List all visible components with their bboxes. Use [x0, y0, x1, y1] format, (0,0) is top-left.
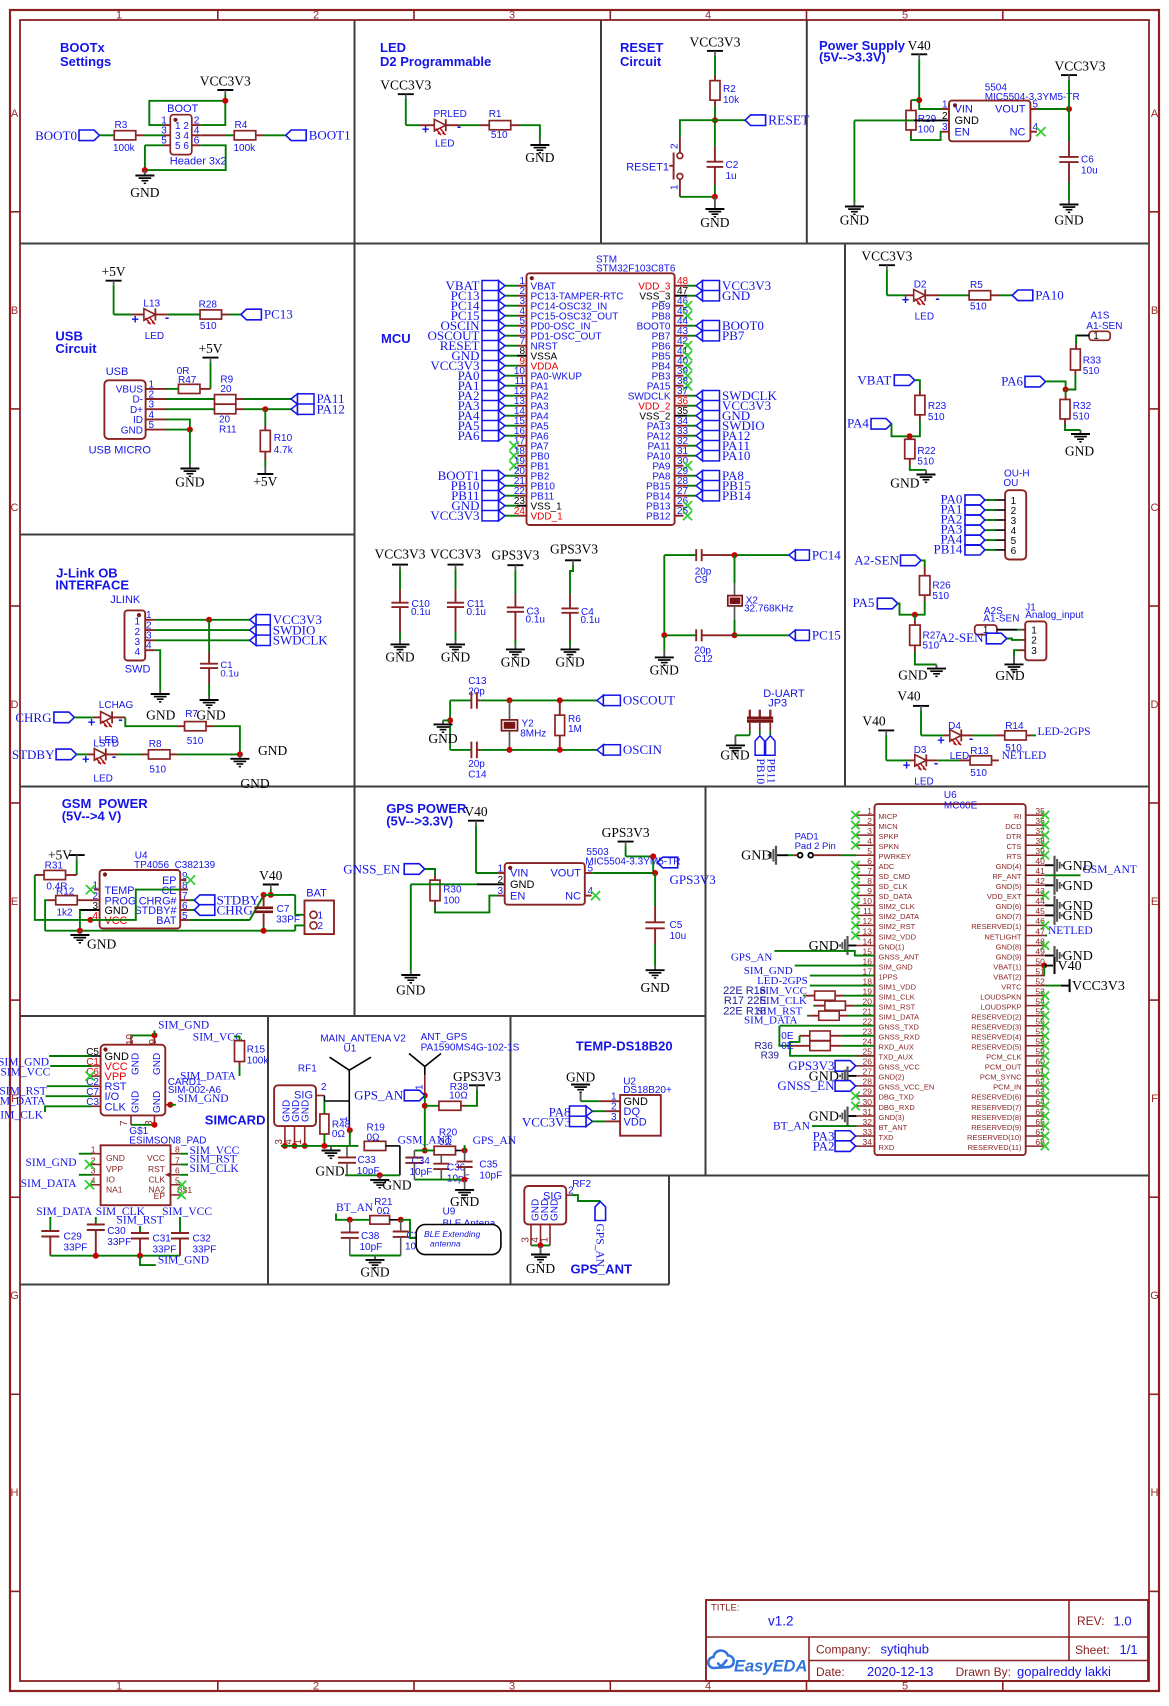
junction dot Y2 top — [507, 697, 513, 703]
svg-text:GND: GND — [809, 1110, 839, 1125]
svg-text:1: 1 — [415, 1084, 426, 1090]
junction dot Y2 bottom — [507, 747, 513, 753]
svg-text:RESERVED(5): RESERVED(5) — [971, 1043, 1022, 1052]
net flag SWDIO (JLINK) — [250, 625, 257, 635]
svg-text:GND: GND — [890, 476, 919, 491]
wire L13 to R28 — [155, 314, 167, 316]
junction dot Y2 GND tap — [447, 717, 453, 723]
power VCC3V3 (D2) — [879, 264, 895, 266]
svg-text:GND: GND — [131, 1053, 142, 1075]
svg-text:VDD_EXT: VDD_EXT — [987, 892, 1022, 901]
svg-text:V40: V40 — [259, 868, 282, 883]
junction dot USB GND — [187, 427, 193, 433]
resistor R39 0E (U6 pin 23) — [800, 1035, 810, 1037]
svg-text:U9: U9 — [443, 1207, 456, 1218]
svg-text:gopalreddy lakki: gopalreddy lakki — [1017, 1664, 1111, 1679]
wire SIM_VCC (CARD1 VCC) — [50, 1065, 91, 1067]
svg-text:8MHz: 8MHz — [520, 728, 546, 739]
svg-text:MICP: MICP — [879, 812, 898, 821]
svg-text:R2: R2 — [723, 84, 736, 95]
wire VOUT row — [585, 872, 593, 874]
svg-text:C: C — [1151, 502, 1159, 514]
resistor R7 — [185, 722, 207, 731]
junction dot R48 — [321, 1143, 327, 1149]
resistor R22 — [909, 436, 911, 439]
svg-text:R3: R3 — [115, 120, 128, 131]
svg-text:1: 1 — [1093, 331, 1099, 342]
ground GND (JLINK pin4) — [159, 690, 161, 694]
svg-text:GND(6): GND(6) — [996, 902, 1022, 911]
svg-text:4: 4 — [705, 10, 711, 22]
svg-text:USB: USB — [106, 366, 129, 378]
power V40 (D4) — [913, 705, 929, 707]
svg-text:4.7k: 4.7k — [274, 445, 294, 456]
svg-text:SIM_CLK: SIM_CLK — [190, 1163, 240, 1175]
svg-text:(5V-->3.3V): (5V-->3.3V) — [819, 50, 886, 65]
svg-text:SIM_DATA: SIM_DATA — [180, 1071, 237, 1083]
svg-text:V40: V40 — [897, 689, 920, 704]
svg-text:RI: RI — [1014, 812, 1022, 821]
svg-text:510: 510 — [1083, 366, 1100, 377]
wire VBAT to R23 — [915, 380, 920, 390]
svg-text:IO: IO — [106, 1174, 115, 1184]
wire R2 to junction — [714, 100, 716, 106]
svg-text:GNSS_VCC_EN: GNSS_VCC_EN — [879, 1083, 935, 1092]
svg-text:SIM2_CLK: SIM2_CLK — [879, 902, 915, 911]
net flag OSCIN (MCU pin 5) — [499, 321, 506, 331]
svg-text:CTS: CTS — [1007, 842, 1022, 851]
net flag PA4 (OU-H pin 5) — [965, 535, 985, 545]
svg-text:PA6: PA6 — [458, 428, 480, 443]
wire PA5 to junction — [898, 604, 915, 615]
svg-text:Header 3x2: Header 3x2 — [170, 156, 227, 168]
svg-text:PA12: PA12 — [317, 401, 345, 416]
junction dot C2 GND — [712, 194, 718, 200]
svg-text:A: A — [1151, 108, 1159, 120]
capacitor C12 — [664, 634, 696, 636]
ground GND (PAD1) — [775, 846, 777, 865]
net flag PC14 — [789, 550, 796, 560]
net flag RESET (MCU pin 7) — [499, 341, 506, 351]
svg-text:GPS_AN: GPS_AN — [473, 1135, 517, 1147]
svg-text:0.1u: 0.1u — [526, 615, 545, 626]
svg-text:1: 1 — [318, 911, 324, 922]
net flag PA0 (OU-H pin 1) — [965, 495, 985, 505]
svg-text:BAT: BAT — [156, 915, 177, 927]
svg-text:sytiqhub: sytiqhub — [881, 1642, 929, 1657]
wire row2 left — [414, 1150, 424, 1152]
wire RF2 GND bus — [531, 1244, 550, 1246]
net flag SWDCLK (JLINK) — [250, 635, 257, 645]
svg-text:PA4: PA4 — [847, 416, 869, 431]
net flag VCC3V3 (JLINK) — [250, 615, 257, 625]
svg-text:RXD_AUX: RXD_AUX — [879, 1043, 914, 1052]
svg-text:NC: NC — [565, 890, 581, 902]
svg-text:R13: R13 — [970, 746, 989, 757]
net flag SWDIO (MCU pin 34) — [696, 421, 703, 431]
svg-text:PRLED: PRLED — [434, 109, 467, 120]
svg-text:Analog_input: Analog_input — [1025, 610, 1084, 621]
svg-text:SIM_CLK: SIM_CLK — [0, 1110, 44, 1122]
net flag PA11 — [291, 394, 298, 404]
svg-text:RF1: RF1 — [298, 1064, 317, 1075]
svg-text:32.768KHz: 32.768KHz — [744, 604, 793, 615]
net flag STDBY (U4) — [180, 899, 190, 901]
svg-text:GND: GND — [130, 185, 159, 200]
wire GPS3V3 to VOUT node — [625, 846, 627, 856]
ground GND (JP3) — [734, 735, 736, 745]
svg-text:SIG: SIG — [294, 1090, 313, 1102]
net flag GNSS_EN (U6 pin 28) — [835, 1081, 856, 1092]
svg-text:V40: V40 — [908, 38, 931, 53]
svg-text:BOOTx: BOOTx — [60, 40, 106, 55]
wire PA6 to junction — [1046, 381, 1066, 389]
svg-text:1/1: 1/1 — [1120, 1642, 1138, 1657]
svg-text:GND(3): GND(3) — [879, 1113, 905, 1122]
svg-text:3: 3 — [509, 1681, 515, 1693]
resistor R27 — [914, 615, 916, 621]
svg-text:MAIN_ANTENA V2: MAIN_ANTENA V2 — [320, 1034, 406, 1045]
wire GNSS_EN to R30 — [425, 869, 435, 876]
svg-text:SD_DATA: SD_DATA — [879, 892, 912, 901]
svg-text:GND: GND — [441, 649, 470, 664]
junction dot PC14/X2 — [732, 552, 738, 558]
wire R1 to GND — [511, 124, 520, 126]
wire SIM_DATA (G$1) — [79, 1174, 92, 1176]
svg-text:GSM_ANT: GSM_ANT — [1083, 864, 1137, 876]
wire D3 to R13 — [926, 759, 938, 761]
svg-text:PC13: PC13 — [264, 307, 293, 322]
wire BAT pin5 to V40 node — [180, 919, 190, 921]
svg-text:10u: 10u — [670, 931, 687, 942]
svg-text:GND: GND — [240, 776, 269, 791]
junction dot CHRG/STDBY GND — [237, 751, 243, 757]
svg-text:PA2: PA2 — [813, 1138, 835, 1153]
svg-text:+5V: +5V — [198, 341, 222, 356]
wire A2-SEN to J1 pin2 — [1007, 639, 1022, 640]
net flag PA8 (MCU pin 29) — [696, 471, 703, 481]
svg-text:SIM2_RST: SIM2_RST — [879, 922, 916, 931]
net flag VBAT (MCU pin 1) — [499, 281, 506, 291]
wire V40 to VIN (5503) — [475, 825, 477, 873]
wire GND pin3 — [79, 909, 100, 911]
svg-text:CHRG: CHRG — [217, 902, 253, 917]
ground GND (CHRG/STDBY) — [239, 754, 241, 758]
wire R4 to BOOT1 — [256, 134, 264, 136]
wire V40 to D4 — [920, 710, 922, 735]
svg-text:(5V-->4 V): (5V-->4 V) — [62, 809, 122, 824]
svg-text:MICN: MICN — [879, 822, 898, 831]
svg-text:+: + — [82, 752, 90, 767]
svg-text:OU: OU — [1003, 478, 1018, 489]
svg-text:GND: GND — [315, 1163, 344, 1178]
wire R3 to header pin3 — [136, 134, 144, 136]
svg-text:SWD: SWD — [125, 663, 151, 675]
svg-text:JLINK: JLINK — [110, 594, 141, 606]
svg-text:Pad 2 Pin: Pad 2 Pin — [795, 841, 836, 852]
svg-text:1: 1 — [116, 1681, 122, 1693]
resistor (SIM_RST) (U6 pin 20) — [813, 1005, 816, 1007]
svg-text:GND: GND — [720, 748, 749, 763]
svg-text:BT_ANT: BT_ANT — [879, 1123, 908, 1132]
svg-text:D: D — [1151, 699, 1159, 711]
svg-text:GND: GND — [525, 150, 554, 165]
svg-text:A: A — [11, 108, 19, 120]
svg-text:5: 5 — [175, 141, 181, 152]
svg-text:GNSS_EN: GNSS_EN — [343, 862, 401, 877]
ground GND (C4) — [569, 646, 571, 649]
svg-text:TITLE:: TITLE: — [711, 1603, 740, 1614]
svg-text:SIM2_DATA: SIM2_DATA — [879, 912, 920, 921]
svg-text:C6: C6 — [1081, 155, 1094, 166]
svg-text:PA1590MS4G-102-1S: PA1590MS4G-102-1S — [421, 1043, 520, 1054]
svg-text:BLE Extending: BLE Extending — [424, 1229, 481, 1239]
svg-text:0.1u: 0.1u — [220, 668, 239, 679]
junction dot PC15/X2 — [732, 632, 738, 638]
svg-text:SD_CLK: SD_CLK — [879, 882, 908, 891]
svg-text:SD_CMD: SD_CMD — [879, 872, 911, 881]
svg-text:C7: C7 — [277, 904, 290, 915]
svg-text:0.1u: 0.1u — [467, 607, 486, 618]
wires JLINK pins to flags — [155, 619, 250, 621]
net flag OSCOUT — [597, 695, 604, 705]
ground GND (USB) — [189, 430, 191, 465]
wire SIM_CLK (G$1) — [180, 1174, 188, 1176]
svg-text:33PF: 33PF — [64, 1243, 88, 1254]
wire C12 to PC15 — [702, 634, 735, 636]
ground GND (right, Power Supply) — [1068, 200, 1070, 204]
ground GND (U6 pin 27) — [846, 1066, 848, 1085]
svg-text:PC14: PC14 — [812, 547, 841, 562]
svg-text:PB7: PB7 — [722, 328, 745, 343]
svg-text:PCM_SYNC: PCM_SYNC — [980, 1073, 1022, 1082]
svg-text:GND: GND — [385, 649, 414, 664]
wire R8 to GND junction — [170, 753, 177, 755]
svg-text:PCM_OUT: PCM_OUT — [985, 1063, 1022, 1072]
svg-text:BT_AN: BT_AN — [773, 1121, 811, 1133]
svg-text:4: 4 — [134, 647, 140, 658]
svg-text:C38: C38 — [361, 1231, 380, 1242]
wire JP3 pin1 to GND — [735, 734, 749, 736]
capacitor C6 — [1068, 109, 1070, 141]
svg-text:F: F — [1151, 1093, 1158, 1105]
svg-text:TXD_AUX: TXD_AUX — [879, 1053, 914, 1062]
svg-text:R14: R14 — [1005, 721, 1024, 732]
ground GND (X2 block) — [663, 635, 665, 650]
svg-text:LOUDSPKN: LOUDSPKN — [980, 992, 1021, 1001]
svg-text:RESET: RESET — [768, 112, 810, 127]
svg-text:RF_ANT: RF_ANT — [992, 872, 1022, 881]
svg-text:GPS_AN: GPS_AN — [594, 1224, 606, 1268]
net flag BOOT0 (MCU pin 44) — [696, 321, 703, 331]
svg-text:510: 510 — [1073, 412, 1090, 423]
net flag SWDCLK (MCU pin 37) — [696, 391, 703, 401]
resistor R3 — [114, 131, 136, 140]
svg-text:MIC5504-3.3YM5-TR: MIC5504-3.3YM5-TR — [585, 857, 680, 868]
wire D4 to R14 — [961, 734, 972, 736]
svg-text:GND: GND — [955, 115, 980, 127]
svg-text:BOOT1: BOOT1 — [309, 128, 351, 143]
junction dot R6 bottom — [557, 747, 563, 753]
junction dot PA5/R27 — [912, 612, 918, 618]
ground GND (antenna bus) — [330, 1146, 332, 1150]
net flag PA0 (MCU pin 10) — [499, 371, 506, 381]
svg-text:+: + — [937, 733, 945, 748]
net flag PB10 (MCU pin 21) — [499, 481, 506, 491]
junction dot GND bus left — [77, 928, 83, 934]
svg-text:2: 2 — [942, 111, 948, 122]
net flag PC14 (MCU pin 3) — [499, 301, 506, 311]
wire R12 left to GND bus — [48, 899, 56, 901]
power VCC3V3 (Power Supply out) — [1061, 74, 1077, 76]
net flag PB14 (MCU pin 27) — [696, 491, 703, 501]
svg-text:+: + — [902, 292, 910, 307]
svg-text:L13: L13 — [143, 299, 160, 310]
svg-text:1PPS: 1PPS — [879, 972, 898, 981]
resistor R29 — [906, 110, 916, 130]
power GPS3V3 (C3) — [507, 564, 523, 566]
svg-text:GND: GND — [360, 1265, 389, 1280]
net flag BOOT1 — [286, 130, 307, 141]
wire VCC3V3 to PRLED — [405, 99, 407, 126]
wire R14 to LED-2GPS — [1027, 734, 1031, 736]
svg-text:H: H — [11, 1487, 19, 1499]
wire +5V to L13 — [113, 285, 115, 314]
wire VBUS to R47 — [167, 388, 179, 390]
svg-text:H: H — [1151, 1487, 1159, 1499]
svg-text:9: 9 — [148, 1039, 159, 1045]
net flag PA1 (MCU pin 11) — [499, 381, 506, 391]
svg-text:C5: C5 — [670, 920, 683, 931]
svg-text:V40: V40 — [464, 804, 487, 819]
svg-text:R11: R11 — [219, 425, 237, 436]
svg-text:3: 3 — [1031, 646, 1037, 657]
svg-text:GND: GND — [1063, 909, 1093, 924]
resistor R32 — [1065, 390, 1067, 397]
svg-text:SWDCLK: SWDCLK — [273, 633, 329, 648]
svg-text:RESET1: RESET1 — [626, 162, 669, 174]
svg-text:10pF: 10pF — [410, 1167, 433, 1178]
svg-text:R4: R4 — [235, 120, 248, 131]
wire junction to RESET flag — [715, 119, 745, 121]
svg-text:SIM_DATA: SIM_DATA — [0, 1095, 46, 1107]
svg-text:B: B — [1151, 305, 1158, 317]
capacitor C14 — [450, 749, 471, 751]
ground GND (C33) — [379, 1175, 381, 1179]
svg-text:10pF: 10pF — [360, 1242, 383, 1253]
svg-text:OSCIN: OSCIN — [623, 742, 663, 757]
svg-text:E: E — [11, 896, 18, 908]
net flag PA10 (D2) — [1012, 290, 1033, 301]
svg-text:GND: GND — [152, 1091, 163, 1113]
resistor R4 — [234, 131, 256, 140]
wire GND pin2 (5503) — [477, 883, 505, 885]
svg-text:GPS3V3: GPS3V3 — [602, 825, 650, 840]
wire bus2 GND — [414, 1179, 464, 1181]
svg-text:MCU: MCU — [381, 331, 411, 346]
svg-text:SIM_VCC: SIM_VCC — [0, 1066, 50, 1078]
svg-text:PCM_IN: PCM_IN — [993, 1083, 1021, 1092]
svg-text:JP3: JP3 — [768, 698, 787, 710]
capacitor C36 — [440, 1155, 442, 1164]
crystal X2 — [734, 555, 736, 583]
svg-text:2: 2 — [313, 1681, 319, 1693]
svg-text:5: 5 — [902, 10, 908, 22]
wire R31 to VCC net — [35, 874, 44, 876]
svg-text:PA10: PA10 — [1035, 288, 1063, 303]
svg-text:510: 510 — [923, 641, 940, 652]
svg-text:+: + — [131, 312, 139, 327]
svg-text:CHRG: CHRG — [15, 710, 51, 725]
svg-text:TXD: TXD — [879, 1133, 895, 1142]
power V40 (D3) — [878, 729, 894, 731]
svg-text:C33: C33 — [358, 1155, 377, 1166]
wire GND to U2 pin1 — [581, 1100, 600, 1102]
svg-text:LED: LED — [915, 312, 934, 323]
svg-text:2: 2 — [321, 1082, 327, 1093]
svg-text:RF2: RF2 — [572, 1179, 591, 1190]
ground GND (R22) — [925, 470, 927, 474]
wire R11 to PA12 — [236, 408, 243, 410]
svg-text:SIM_GND: SIM_GND — [25, 1157, 76, 1169]
svg-text:EP: EP — [154, 1191, 166, 1201]
svg-text:GNSS_ANT: GNSS_ANT — [879, 952, 920, 961]
svg-text:SIM1_DATA: SIM1_DATA — [879, 1013, 920, 1022]
svg-text:0.1u: 0.1u — [581, 615, 600, 626]
svg-text:510: 510 — [932, 591, 949, 602]
net flag VCC3V3 (MCU pin 48) — [696, 281, 703, 291]
svg-text:10k: 10k — [723, 95, 740, 106]
junction dot PA12/R10 — [262, 406, 268, 412]
svg-text:0E: 0E — [781, 1041, 794, 1052]
svg-text:0Ω: 0Ω — [332, 1129, 346, 1140]
svg-text:-: - — [112, 749, 116, 764]
svg-text:5: 5 — [902, 1681, 908, 1693]
svg-text:LED-2GPS: LED-2GPS — [1038, 726, 1091, 738]
power VCC3V3 (LED) — [398, 93, 414, 95]
svg-text:510: 510 — [200, 321, 217, 332]
svg-text:GND: GND — [1063, 879, 1093, 894]
net flag PA1 (OU-H pin 2) — [965, 505, 985, 515]
svg-text:SIM1_CLK: SIM1_CLK — [879, 992, 915, 1001]
capacitor C5 — [654, 873, 656, 906]
no-connect TEMP pin1 — [94, 889, 100, 891]
ground GND (BOOTx) — [144, 170, 146, 175]
svg-text:-: - — [934, 755, 938, 770]
resistor R33 — [1071, 349, 1081, 370]
svg-text:LED: LED — [435, 139, 454, 150]
svg-text:1M: 1M — [568, 724, 582, 735]
wire V40 to VIN — [918, 59, 920, 100]
capacitor C37 — [400, 1220, 402, 1232]
svg-text:1.0: 1.0 — [1114, 1614, 1132, 1629]
wire OSCIN row — [477, 749, 481, 751]
power VCC3V3 (C10) — [392, 564, 408, 566]
svg-text:6: 6 — [183, 141, 189, 152]
svg-text:NC: NC — [1010, 127, 1026, 139]
svg-text:100k: 100k — [234, 143, 257, 154]
IC U6 MC60E — [875, 804, 1026, 1155]
wire VOUT to VCC3V3 — [1030, 108, 1038, 110]
svg-text:3: 3 — [509, 10, 515, 22]
title block frame — [706, 1600, 1148, 1681]
svg-text:SPKP: SPKP — [879, 832, 899, 841]
svg-text:LED: LED — [145, 331, 164, 342]
junction dot bottom — [152, 1122, 158, 1128]
svg-text:GND: GND — [87, 937, 116, 952]
no-connect VPP (CARD1) — [85, 1072, 94, 1081]
wire header pins 5-6 to GND — [145, 144, 164, 146]
